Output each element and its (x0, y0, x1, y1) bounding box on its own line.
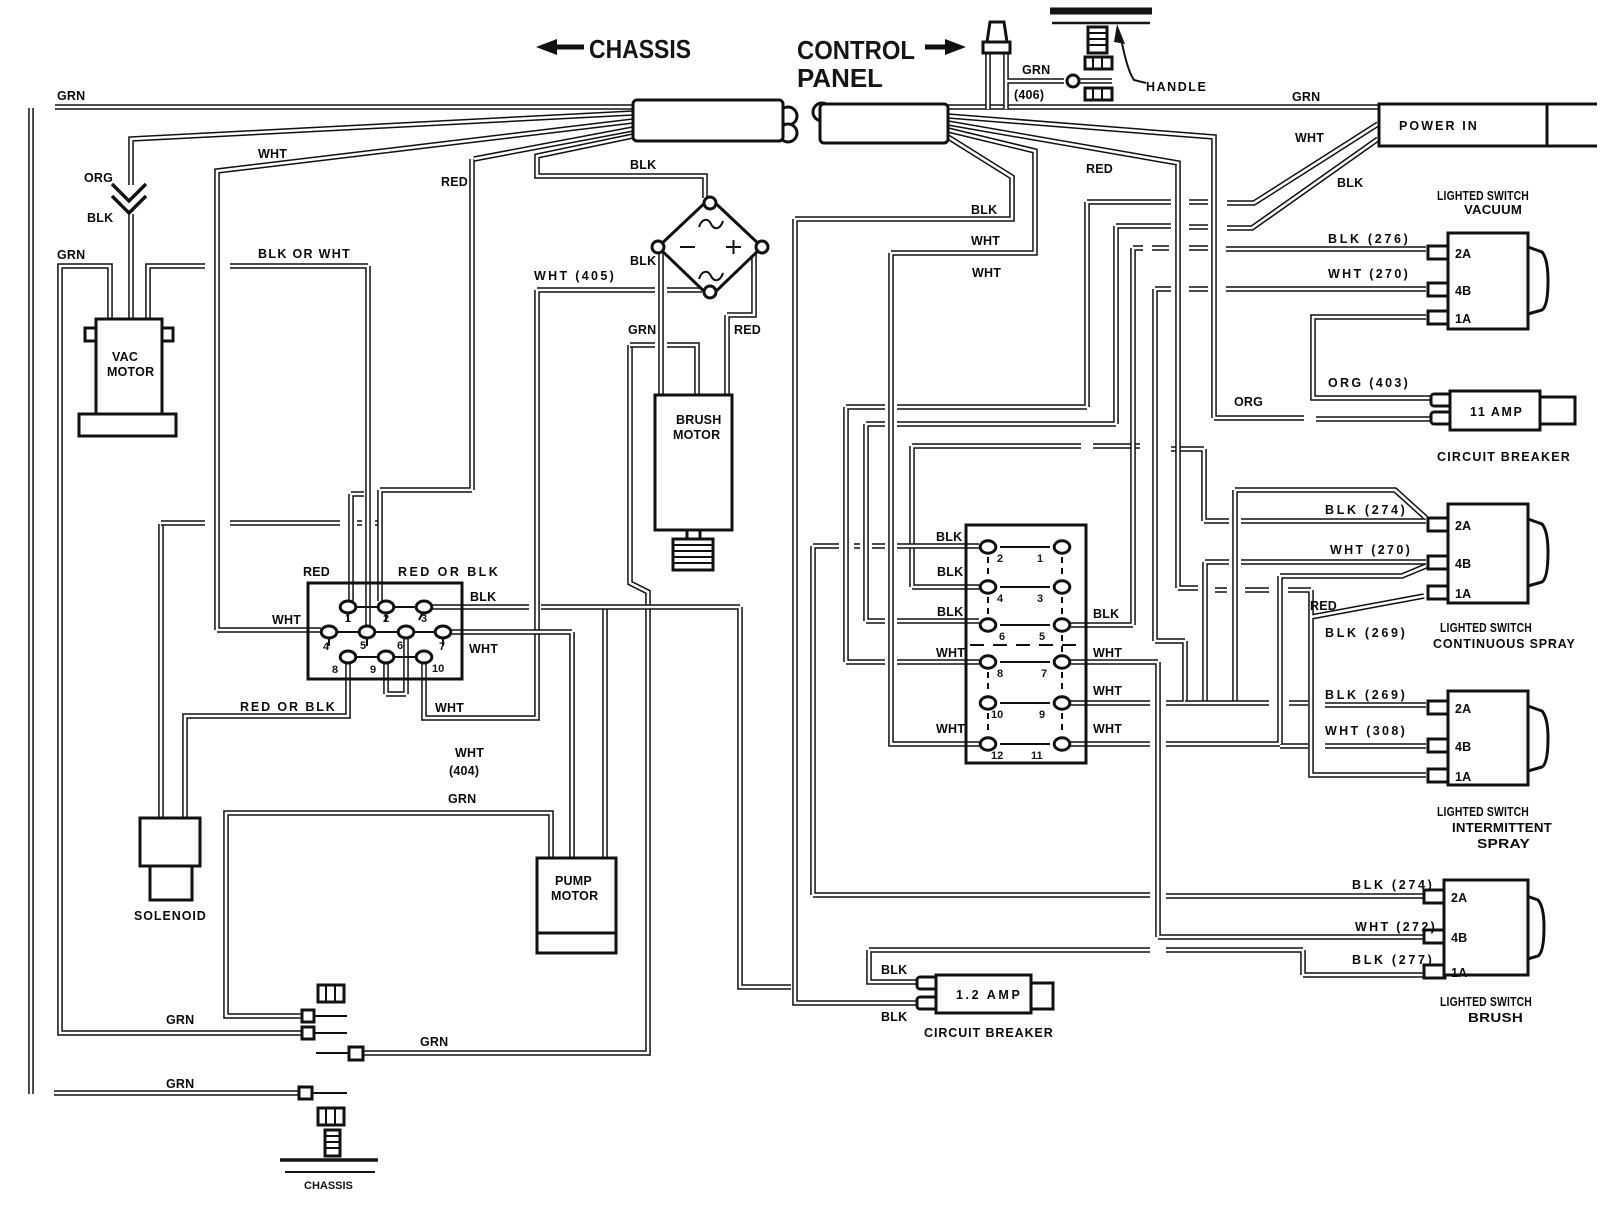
svg-text:RED: RED (303, 565, 330, 579)
lighted switch intermittent spray (1528, 706, 1548, 771)
svg-text:CIRCUIT BREAKER: CIRCUIT BREAKER (1437, 450, 1570, 464)
wire WHT pin8 riser to POWER IN (846, 124, 1378, 662)
svg-text:BLK: BLK (630, 158, 656, 172)
svg-text:BLK (269): BLK (269) (1325, 688, 1405, 702)
svg-text:BLK: BLK (1093, 607, 1119, 621)
svg-text:BLK (274): BLK (274) (1352, 878, 1432, 892)
wire WHT270 pin9 riser to vacuum switch 4B (1069, 289, 1426, 703)
svg-text:(404): (404) (449, 764, 479, 778)
svg-text:MOTOR: MOTOR (673, 428, 720, 442)
svg-text:WHT: WHT (469, 642, 498, 656)
svg-text:SPRAY: SPRAY (1477, 837, 1531, 851)
BRUSH MOTOR (655, 395, 732, 530)
svg-text:WHT: WHT (1093, 684, 1122, 698)
svg-text:MOTOR: MOTOR (551, 889, 598, 903)
svg-text:BRUSH: BRUSH (676, 413, 721, 427)
svg-text:1: 1 (345, 613, 351, 625)
svg-text:CHASSIS: CHASSIS (589, 34, 691, 64)
wire WHT chassis fan down to 10-pin row (217, 121, 633, 630)
bottom bullet connector row1 (302, 1010, 314, 1022)
svg-text:BLK (274): BLK (274) (1325, 503, 1405, 517)
wire BLK pin6 riser to POWER IN (866, 139, 1378, 621)
wire BLK276 pin5 to vacuum switch 2A (1069, 248, 1426, 625)
wire GRN brush motor long run to bottom bullet (363, 345, 648, 1053)
svg-text:1A: 1A (1451, 966, 1467, 980)
svg-text:VACUUM: VACUUM (1464, 203, 1522, 217)
wire GRN 406 handle plug leads (988, 53, 1112, 109)
GRN 406 bead (1067, 75, 1079, 87)
wire GRN main top run chassis side (55, 104, 633, 110)
svg-text:2: 2 (997, 553, 1003, 565)
svg-text:BLK: BLK (937, 605, 963, 619)
svg-text:SOLENOID: SOLENOID (134, 909, 206, 923)
svg-text:9: 9 (370, 664, 376, 676)
svg-text:1A: 1A (1455, 587, 1471, 601)
svg-text:8: 8 (332, 664, 338, 676)
svg-text:5: 5 (360, 640, 366, 652)
svg-text:MOTOR: MOTOR (107, 365, 154, 379)
wire BLK269 to intermittent spray 2A (1185, 703, 1426, 705)
svg-text:4: 4 (997, 593, 1004, 605)
handle plug body (987, 22, 1007, 42)
wire RED OR BLK solenoid to pin 8 (185, 664, 348, 818)
svg-text:WHT: WHT (972, 266, 1001, 280)
chassis ground screw (325, 1130, 340, 1156)
wire WHT control panel to pin 12 (891, 130, 1035, 744)
svg-text:BLK: BLK (1337, 176, 1363, 190)
wire GRN pump motor lead to bullet row (226, 813, 551, 1016)
lighted switch vacuum (1528, 247, 1548, 314)
handle callout arrow (1121, 38, 1146, 83)
wire ORG chassis fan to chevron and VAC motor (131, 113, 633, 320)
10-pin connector block (329, 612, 443, 646)
lighted switch brush (1524, 895, 1544, 960)
svg-text:GRN: GRN (1292, 90, 1320, 104)
svg-text:BLK: BLK (470, 590, 496, 604)
SOLENOID (140, 818, 200, 866)
wire BLK pin 3 long run to breaker area (431, 607, 791, 987)
wire BLK277 breaker to brush switch 1A (869, 950, 1426, 982)
svg-text:VAC: VAC (112, 350, 138, 364)
svg-text:RED: RED (1310, 599, 1337, 613)
svg-text:BLK: BLK (937, 565, 963, 579)
svg-text:GRN: GRN (628, 323, 656, 337)
svg-text:12: 12 (991, 750, 1003, 762)
11 amp circuit breaker (1431, 394, 1451, 406)
chassis cable connector (779, 107, 797, 125)
svg-text:10: 10 (432, 663, 444, 675)
svg-text:WHT: WHT (258, 147, 287, 161)
POWER IN box (1547, 104, 1597, 146)
svg-text:11: 11 (1031, 750, 1043, 762)
svg-text:BLK (277): BLK (277) (1352, 953, 1432, 967)
svg-text:BRUSH: BRUSH (1468, 1011, 1523, 1025)
wire WHT272 pin7 to brush switch 4B (1069, 662, 1426, 937)
svg-text:BLK: BLK (971, 203, 997, 217)
svg-text:GRN: GRN (420, 1035, 448, 1049)
svg-text:CHASSIS: CHASSIS (304, 1180, 353, 1192)
svg-text:WHT: WHT (435, 701, 464, 715)
1.2 amp circuit breaker (917, 977, 937, 989)
svg-text:ORG: ORG (84, 171, 113, 185)
svg-text:GRN: GRN (57, 89, 85, 103)
mating connector block low (318, 1108, 344, 1125)
wire BLK OR WHT to pin 5 (148, 266, 368, 626)
control panel arrow (925, 45, 948, 50)
svg-text:2: 2 (383, 613, 389, 625)
chassis arrow (552, 45, 584, 50)
wire WHT270 branch to continuous spray 4B (1205, 562, 1426, 702)
svg-text:(406): (406) (1014, 88, 1044, 102)
wire BLK control panel to 1.2 amp breaker (795, 137, 1012, 1003)
control panel cable connector (813, 103, 831, 121)
svg-text:BLK: BLK (936, 530, 962, 544)
handle screw (1088, 27, 1107, 53)
wire RED chassis fan riser (380, 129, 633, 523)
svg-text:CIRCUIT BREAKER: CIRCUIT BREAKER (924, 1026, 1053, 1040)
svg-text:WHT: WHT (1093, 646, 1122, 660)
bottom bullet connector row4 (299, 1087, 312, 1099)
wire solenoid second lead down to bottom GRN row (158, 524, 164, 818)
wire BLK269 riser between 2A terminals (1235, 490, 1426, 702)
svg-text:PUMP: PUMP (555, 874, 592, 888)
svg-text:BLK OR WHT: BLK OR WHT (258, 247, 350, 261)
wire WHT 405 rectifier to pin 10 (424, 290, 702, 718)
wire BLK274 pin4 of 12-pin to continuous spray 2A (912, 446, 1426, 587)
svg-text:4B: 4B (1455, 284, 1471, 298)
svg-text:2A: 2A (1455, 247, 1471, 261)
svg-text:ORG: ORG (1234, 395, 1263, 409)
svg-text:2A: 2A (1451, 891, 1467, 905)
svg-text:WHT: WHT (1093, 722, 1122, 736)
svg-text:7: 7 (1041, 668, 1047, 680)
wire GRN brush motor top jog (630, 345, 697, 394)
svg-text:WHT: WHT (936, 646, 965, 660)
wire RED OR BLK to pin 2 (377, 523, 383, 601)
svg-text:WHT: WHT (272, 613, 301, 627)
wire ORG403 vacuum 1A to 11 amp breaker (1313, 317, 1431, 398)
svg-text:11 AMP: 11 AMP (1470, 405, 1522, 419)
svg-text:BLK (269): BLK (269) (1325, 626, 1405, 640)
svg-text:BLK: BLK (881, 1010, 907, 1024)
svg-text:BLK: BLK (881, 963, 907, 977)
wire WHT pin 7 to pump motor (450, 632, 572, 857)
svg-text:1A: 1A (1455, 312, 1471, 326)
svg-text:9: 9 (1039, 709, 1045, 721)
svg-text:WHT: WHT (971, 234, 1000, 248)
svg-text:LIGHTED SWITCH: LIGHTED SWITCH (1437, 189, 1529, 203)
wire left border ground run (28, 108, 34, 1094)
svg-text:RED: RED (734, 323, 761, 337)
svg-text:1: 1 (1037, 553, 1043, 565)
svg-text:GRN: GRN (448, 792, 476, 806)
wire RED to pin 1 (351, 494, 364, 601)
wire WHT308 pin11 to 4B terminals (1069, 566, 1426, 746)
wire GRN bottom row 4 (54, 1090, 299, 1096)
wire RED rectifier right to brush motor (727, 253, 754, 394)
svg-text:GRN: GRN (1022, 63, 1050, 77)
svg-text:RED: RED (1086, 162, 1113, 176)
wire BLK274 pin2 of 12-pin to brush switch 2A (813, 546, 1426, 896)
svg-text:8: 8 (997, 668, 1003, 680)
svg-text:RED: RED (441, 175, 468, 189)
svg-text:5: 5 (1039, 631, 1045, 643)
svg-text:6: 6 (999, 631, 1005, 643)
svg-text:GRN: GRN (57, 248, 85, 262)
svg-text:CONTINUOUS SPRAY: CONTINUOUS SPRAY (1433, 637, 1575, 651)
svg-text:3: 3 (421, 613, 427, 625)
svg-text:PANEL: PANEL (797, 63, 883, 93)
VAC MOTOR (85, 328, 96, 341)
handle bar (1050, 8, 1152, 15)
12-pin connector block (966, 525, 1086, 763)
svg-text:WHT: WHT (936, 722, 965, 736)
svg-text:BLK: BLK (630, 254, 656, 268)
svg-text:CONTROL: CONTROL (797, 35, 915, 65)
ORG chevron marks (112, 184, 146, 201)
wire RED control panel to spray switches 1A (948, 123, 1426, 775)
rectifier symbols (699, 220, 723, 228)
chassis ground bars (280, 1158, 378, 1162)
svg-text:BLK: BLK (87, 211, 113, 225)
mating connector block mid (318, 985, 344, 1002)
svg-text:2A: 2A (1455, 702, 1471, 716)
svg-text:2A: 2A (1455, 519, 1471, 533)
svg-text:WHT: WHT (1295, 131, 1324, 145)
bottom bullet connector row3 (349, 1047, 363, 1060)
svg-text:10: 10 (991, 709, 1003, 721)
svg-text:1A: 1A (1455, 770, 1471, 784)
wire BLK rectifier left to brush motor (658, 253, 664, 394)
svg-text:4B: 4B (1455, 557, 1471, 571)
PUMP MOTOR (537, 858, 616, 933)
svg-text:GRN: GRN (166, 1013, 194, 1027)
wire GRN left from VAC motor to bottom bullet row (60, 266, 302, 1033)
svg-text:7: 7 (439, 641, 445, 653)
svg-text:INTERMITTENT: INTERMITTENT (1452, 821, 1552, 835)
wire RED OR BLK solenoid riser to pin 2 junction (161, 520, 380, 526)
handle connector block lower (1085, 88, 1112, 100)
WHT 404 jumper loop pins 6-9 (386, 638, 406, 694)
wire RED OR BLK riser to pump motor (602, 607, 608, 857)
bridge rectifier (658, 198, 762, 297)
svg-text:LIGHTED SWITCH: LIGHTED SWITCH (1437, 805, 1529, 819)
bottom bullet connector row2 (302, 1027, 314, 1039)
svg-text:6: 6 (397, 640, 403, 652)
wire GRN main top run control side to POWER IN (948, 104, 1379, 110)
lighted switch continuous spray (1528, 519, 1548, 586)
svg-text:4B: 4B (1451, 931, 1467, 945)
svg-text:LIGHTED SWITCH: LIGHTED SWITCH (1440, 995, 1532, 1009)
wire BLK chassis fan to rectifier top (537, 136, 705, 198)
svg-text:4B: 4B (1455, 740, 1471, 754)
svg-text:POWER IN: POWER IN (1399, 119, 1477, 133)
svg-text:WHT: WHT (455, 746, 484, 760)
svg-text:4: 4 (323, 641, 330, 653)
svg-text:GRN: GRN (166, 1077, 194, 1091)
svg-text:3: 3 (1037, 593, 1043, 605)
svg-text:LIGHTED SWITCH: LIGHTED SWITCH (1440, 621, 1532, 635)
svg-text:HANDLE: HANDLE (1146, 80, 1206, 94)
handle connector block upper (1085, 57, 1112, 69)
wire ORG control panel to 11 amp breaker (948, 116, 1431, 419)
svg-text:BLK (276): BLK (276) (1328, 232, 1408, 246)
